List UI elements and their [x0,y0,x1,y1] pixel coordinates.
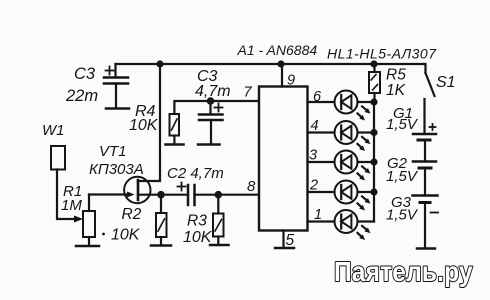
battery G1 [413,124,436,162]
battery G3 [413,196,439,249]
capacitor C3 4,7m [199,101,223,144]
ground bar pin 5 [275,247,294,250]
node: junction R5 top [370,60,377,67]
svg-text:22m: 22m [65,87,98,105]
ground bar under R3 [210,244,229,247]
capacitor C3 22m [104,64,128,108]
LED HL1 [335,91,371,121]
svg-text:1K: 1K [386,82,406,99]
wire: VT1 drain to rail [138,64,160,181]
wire: VT1 source line to pin 8 [138,194,188,196]
wire: pin 5 [282,231,284,248]
svg-text:Паятель.ру: Паятель.ру [334,255,473,287]
node: junction R3 [215,191,223,199]
svg-text:4,7m: 4,7m [195,83,231,100]
svg-text:4: 4 [311,118,319,134]
svg-text:R3: R3 [187,213,207,230]
svg-text:1,5V: 1,5V [386,168,419,185]
wire: top supply rail [116,63,425,65]
svg-text:R5: R5 [386,67,406,84]
switch S1 [425,64,435,134]
svg-text:10K: 10K [129,117,159,134]
svg-text:1,5V: 1,5V [386,116,419,133]
wire: to pin 7 of IC [211,100,260,102]
resistor R5 [369,64,380,102]
node: junction top-left (drain wire) [156,60,163,67]
svg-text:5: 5 [286,232,295,249]
resistor R2 [156,195,167,245]
svg-text:8: 8 [247,178,256,195]
svg-text:6: 6 [313,89,322,105]
ground bar under C3 4,7m [198,143,220,146]
svg-text:1,5V: 1,5V [386,207,419,224]
ground bar under R4 [166,143,184,146]
ground bar under C3 [106,107,129,110]
svg-text:C3: C3 [74,65,96,83]
svg-text:10K: 10K [183,229,213,246]
svg-text:2: 2 [309,178,318,194]
svg-text:3: 3 [309,148,317,164]
resistor R4 [170,101,211,144]
battery G2 [413,162,436,196]
sensor W1 [51,146,83,223]
node: rail row6 [370,98,377,105]
svg-text:S1: S1 [436,74,456,91]
node: rail row4 [370,129,377,136]
node: junction C3(4,7m)/R4/pin7 [207,97,215,105]
op-amp/IC U1 A1 AN6884 [259,87,308,231]
svg-text:W1: W1 [42,122,65,139]
resistor R3 [213,195,224,245]
svg-text:1: 1 [314,207,322,223]
potentiometer R1 [83,195,95,246]
wire: pin 9 [281,64,283,87]
wire: pin 6 row [308,101,335,103]
node: stray speck [102,233,105,236]
svg-text:7: 7 [244,85,253,101]
wire: pin 2 row [308,191,335,193]
transistor VT1 [124,177,150,203]
node: junction pin 9 [277,60,284,67]
svg-text:R2: R2 [122,206,142,223]
LED HL3 [335,151,371,181]
LED HL4 [335,181,371,211]
wire: pin 1 row [308,220,335,222]
svg-text:VT1: VT1 [99,143,127,160]
svg-text:HL1-HL5-АЛ307: HL1-HL5-АЛ307 [327,46,437,62]
svg-text:A1 - AN6884: A1 - AN6884 [237,42,318,58]
wire: gate line R1 to VT1 [89,193,129,195]
wire: pin 4 row [308,131,335,133]
wire: right LED rail [373,102,375,222]
wire: pin 3 row [308,161,335,163]
LED HL2 [335,121,371,151]
ground bar battery [417,247,435,250]
svg-text:9: 9 [287,73,295,89]
svg-text:C2 4,7m: C2 4,7m [167,165,224,182]
svg-text:1M: 1M [61,197,82,214]
svg-text:КП303А: КП303А [89,161,144,178]
ground bar under R2 [151,244,171,247]
svg-text:10K: 10K [111,227,141,244]
capacitor C2 [178,183,195,206]
ground bar under R1 [76,245,99,248]
node: rail row2 [370,188,377,195]
node: junction R2 [157,191,165,199]
LED HL5 [335,210,371,240]
node: rail row3 [370,158,377,165]
